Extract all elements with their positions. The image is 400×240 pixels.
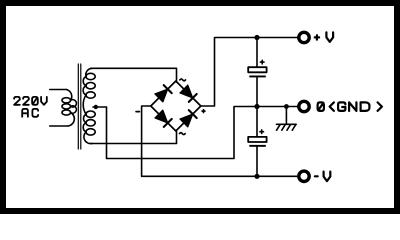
- wire center tap stub: [93, 106, 107, 108]
- terminal +V: [299, 32, 309, 42]
- wire center tap to 0V rail: [107, 107, 298, 159]
- diode D4 bottom-right: [180, 110, 197, 127]
- label AC: [22, 109, 38, 117]
- label 0(GND): [318, 102, 382, 111]
- diode D1 top-left: [155, 85, 172, 102]
- label -V: [315, 172, 330, 182]
- wire bridge plus to +V rail: [201, 38, 298, 107]
- ground symbol: [277, 124, 297, 130]
- capacitor C1: [248, 38, 266, 107]
- bridge rectifier diamond: [151, 81, 201, 131]
- label +V: [315, 32, 333, 42]
- terminal -V: [299, 171, 309, 181]
- diode D2 top-right: [180, 85, 197, 102]
- transformer T1 secondary winding: [83, 68, 95, 143]
- node junction +V rail / C1: [254, 35, 259, 40]
- wire secondary bottom to bridge AC bottom: [91, 130, 177, 144]
- wire ground branch: [285, 107, 287, 124]
- node junction 0V rail / ground: [284, 104, 289, 109]
- transformer T1 core: [78, 64, 81, 149]
- diode D3 bottom-left: [155, 110, 172, 127]
- label + bridge: [202, 110, 205, 113]
- node junction 0V rail / C1 C2: [254, 104, 259, 109]
- node junction -V rail / C2: [254, 174, 259, 179]
- label 220V: [14, 97, 47, 105]
- node center tap junction: [94, 105, 98, 109]
- transformer T1 primary winding: [50, 90, 77, 127]
- label ~ top: [180, 79, 186, 81]
- terminal 0V GND: [299, 101, 309, 111]
- label ~ bottom: [180, 133, 186, 135]
- wire bridge minus to -V rail: [142, 106, 298, 176]
- label - bridge: [136, 111, 139, 113]
- wire secondary top to bridge AC top: [91, 68, 177, 82]
- capacitor C2: [248, 107, 266, 177]
